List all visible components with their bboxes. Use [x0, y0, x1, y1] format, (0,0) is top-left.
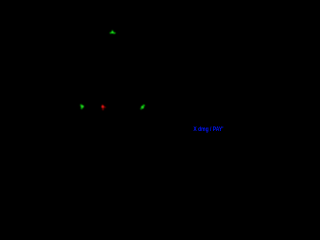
svg-text:X dmg / PAY': X dmg / PAY' — [193, 126, 223, 133]
red fluorescence blob bottom middle — [101, 105, 106, 111]
black background — [0, 0, 225, 135]
green fluorescence signal top center — [110, 30, 116, 34]
green fluorescence blob bottom right — [140, 105, 145, 110]
green fluorescence blob bottom left — [80, 104, 84, 109]
